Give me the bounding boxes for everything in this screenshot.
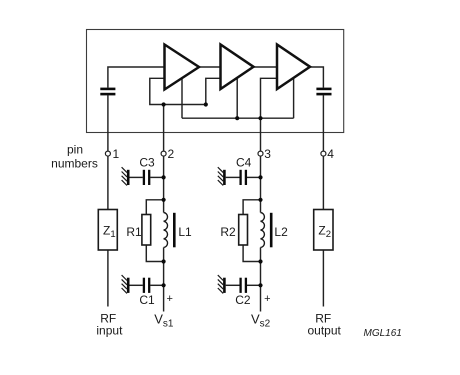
impedance Z1 — [98, 210, 117, 251]
wire amp1 tap down — [181, 78, 183, 118]
node pin3 bus — [258, 116, 262, 120]
pin 2 terminal — [161, 151, 166, 156]
wire C3 to node — [150, 176, 163, 178]
wire R1 branch — [146, 200, 163, 215]
svg-text:numbers: numbers — [51, 157, 98, 171]
node staple2 corner — [204, 102, 208, 106]
pin 3 terminal — [258, 151, 263, 156]
op-amp U1a — [165, 45, 200, 90]
wire amp2 tap down — [236, 78, 238, 118]
junction dots — [162, 102, 263, 287]
svg-text:C2: C2 — [235, 293, 251, 307]
node C4 — [258, 175, 262, 179]
node pin2 feedback — [162, 102, 166, 106]
wire amp2 output to amp3 — [254, 66, 278, 68]
wire column Vs2 lower — [260, 248, 262, 312]
wire pin 4 to Z2 — [322, 156, 324, 209]
svg-text:R2: R2 — [220, 225, 236, 239]
wire staple amp2 input loop — [206, 78, 221, 104]
capacitor C3 — [144, 170, 149, 185]
svg-text:+: + — [166, 293, 172, 305]
node C3 — [162, 175, 166, 179]
wire lower bus — [182, 117, 294, 119]
wire amp1 output to amp2 — [199, 66, 221, 68]
pin 1 terminal — [105, 151, 110, 156]
impedance Z2 — [314, 210, 333, 251]
node C2 — [258, 283, 262, 287]
capacitor C2 — [241, 278, 246, 293]
inductor L2 core bar — [270, 213, 273, 248]
wire C1 ground branch — [130, 284, 143, 286]
svg-text:input: input — [96, 324, 123, 338]
ground for C4 — [218, 167, 225, 185]
node R2L2 bottom — [258, 259, 262, 263]
node R1L1 top — [162, 198, 166, 202]
pin 4 terminal — [321, 151, 326, 156]
capacitor C1 — [144, 278, 149, 293]
svg-text:C1: C1 — [139, 293, 155, 307]
svg-text:MGL161: MGL161 — [364, 328, 402, 339]
resistor R2 — [239, 215, 248, 246]
wire amp3 staple loop — [261, 78, 278, 118]
wire column Vs1 lower — [163, 248, 165, 312]
ground for C3 — [122, 167, 129, 185]
IC module box U1 — [87, 30, 344, 133]
wire C2 ground branch — [226, 284, 240, 286]
wire input cap to amp1 — [108, 67, 165, 88]
wire C4 ground branch — [226, 176, 240, 178]
ground for C2 — [218, 275, 225, 293]
svg-text:3: 3 — [264, 147, 271, 161]
wire C1 to node — [150, 284, 163, 286]
svg-text:1: 1 — [113, 147, 120, 161]
node amp2 tap — [235, 116, 239, 120]
inductor L1 core bar — [173, 213, 176, 248]
wire pin 3 to supply column Vs2 — [260, 118, 262, 212]
wire pin 2 to supply column Vs1 — [163, 105, 165, 213]
inductor L2 — [261, 213, 265, 248]
wire amp3 output to cap C-out — [310, 67, 323, 88]
wire cap C-out bottom to pin 4 — [322, 95, 324, 151]
wire Z1 to RF input — [107, 250, 109, 307]
wire C3 ground branch — [130, 176, 143, 178]
op-amp U1c — [277, 45, 310, 90]
node R2L2 top — [258, 198, 262, 202]
resistor R1 — [142, 215, 151, 246]
node C1 — [162, 283, 166, 287]
wire R2 branch — [243, 200, 260, 215]
wire pin 1 to Z1 — [107, 156, 109, 209]
svg-text:output: output — [308, 324, 342, 338]
node R1L1 bottom — [162, 259, 166, 263]
wire C2 to node — [247, 284, 261, 286]
svg-text:L1: L1 — [178, 225, 192, 239]
svg-text:L2: L2 — [274, 225, 288, 239]
capacitor C-in plates — [100, 89, 115, 94]
svg-text:C4: C4 — [236, 155, 252, 169]
capacitor C-out plates — [316, 89, 331, 94]
wire Z2 to RF output — [322, 250, 324, 307]
svg-text:C3: C3 — [139, 155, 155, 169]
ground for C1 — [122, 275, 129, 293]
svg-text:R1: R1 — [126, 225, 142, 239]
svg-text:4: 4 — [327, 147, 334, 161]
wire cap C-in bottom to pin 1 — [107, 95, 109, 151]
svg-text:+: + — [264, 293, 270, 305]
capacitor C4 — [241, 170, 246, 185]
wire C4 to node — [247, 176, 261, 178]
inductor L1 — [164, 213, 168, 248]
wire amp3 tap down — [293, 78, 295, 118]
wire staple amp1 input loop — [150, 78, 206, 104]
op-amp U1b — [221, 45, 254, 90]
svg-text:pin: pin — [67, 143, 83, 157]
svg-text:2: 2 — [168, 147, 175, 161]
